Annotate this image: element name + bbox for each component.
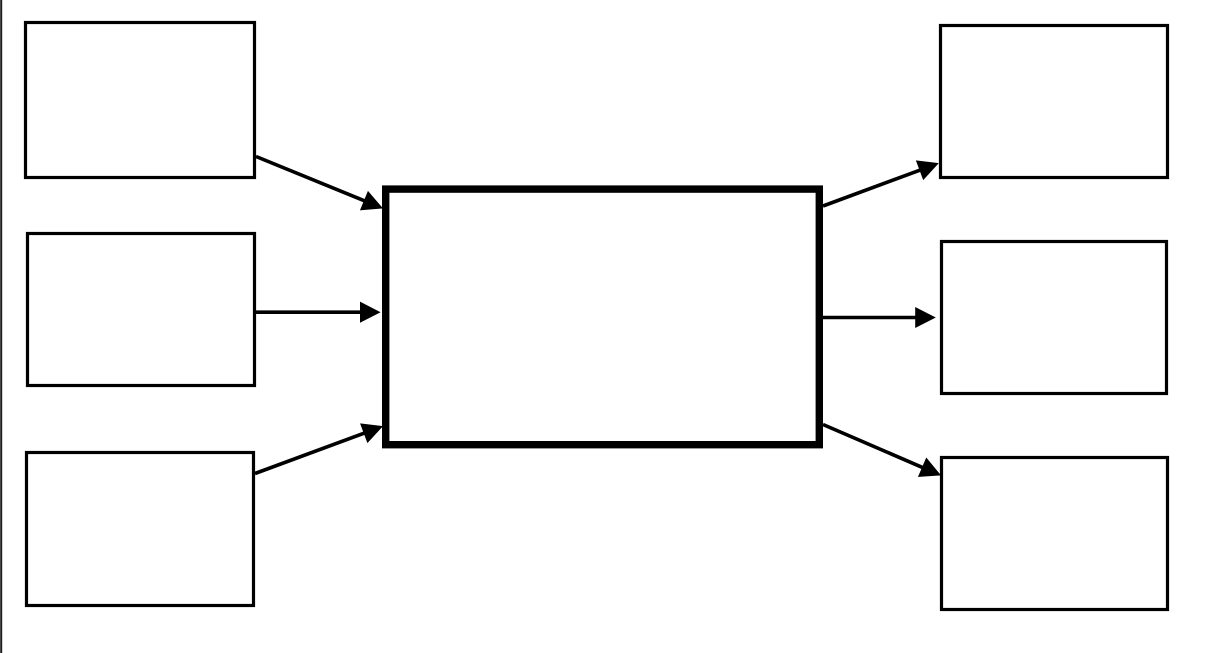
center box (386, 189, 820, 445)
arrow top-left to center (256, 157, 382, 210)
box middle-left (28, 234, 255, 386)
box middle-right (942, 242, 1167, 394)
box bottom-left (27, 453, 254, 606)
left page-edge line (0, 0, 2, 653)
arrow bottom-left to center (255, 424, 382, 474)
arrow center to top-right (823, 161, 938, 206)
box top-right (941, 26, 1168, 178)
arrow middle-left to center (256, 302, 380, 322)
arrow center to middle-right (823, 308, 935, 327)
box bottom-right (942, 458, 1168, 610)
arrow center to bottom-right (823, 425, 940, 477)
box top-left (26, 23, 255, 178)
